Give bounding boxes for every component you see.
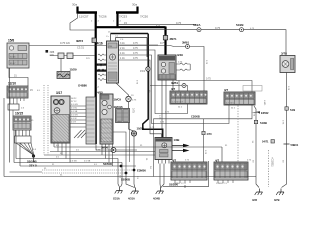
svg-text:G31A: G31A xyxy=(113,197,120,201)
svg-text:54/2B: 54/2B xyxy=(236,23,243,27)
svg-text:G4B86: G4B86 xyxy=(78,84,87,88)
svg-text:11/C57: 11/C57 xyxy=(79,15,89,19)
svg-text:0.5 GN: 0.5 GN xyxy=(71,104,78,106)
svg-text:3 1b: 3 1b xyxy=(120,42,125,45)
svg-text:0.75 GN: 0.75 GN xyxy=(60,41,70,45)
svg-text:54/9: 54/9 xyxy=(290,108,296,112)
svg-text:0.75: 0.75 xyxy=(132,108,135,113)
svg-text:30a: 30a xyxy=(132,3,137,7)
svg-text:23Y 5: 23Y 5 xyxy=(29,164,37,168)
svg-text:54/2A: 54/2A xyxy=(193,23,200,27)
svg-text:1 2 3 4 5: 1 2 3 4 5 xyxy=(226,102,235,104)
svg-text:7/C53: 7/C53 xyxy=(119,15,127,19)
svg-text:0.75: 0.75 xyxy=(176,21,182,25)
svg-text:C3/50B: C3/50B xyxy=(191,115,200,119)
svg-text:3/17: 3/17 xyxy=(56,91,62,95)
svg-text:10/15: 10/15 xyxy=(15,112,23,116)
svg-text:85 87: 85 87 xyxy=(10,63,16,65)
svg-text:E3502: E3502 xyxy=(261,111,269,115)
svg-text:0.75: 0.75 xyxy=(160,41,166,45)
svg-text:3M71: 3M71 xyxy=(170,37,177,41)
svg-text:7/C50: 7/C50 xyxy=(140,15,148,19)
svg-text:30 86: 30 86 xyxy=(10,57,16,59)
svg-text:0.75: 0.75 xyxy=(215,26,221,30)
svg-text:3/7: 3/7 xyxy=(224,88,229,92)
svg-text:3/7B: 3/7B xyxy=(274,198,280,202)
svg-text:54/2B: 54/2B xyxy=(260,121,267,125)
svg-text:L MD: L MD xyxy=(263,100,265,106)
svg-text:3M91: 3M91 xyxy=(182,41,189,45)
svg-text:3M51: 3M51 xyxy=(171,81,178,85)
svg-text:0.5 SB: 0.5 SB xyxy=(84,161,91,163)
svg-text:0.5 SB: 0.5 SB xyxy=(70,161,77,163)
svg-text:2 1b: 2 1b xyxy=(120,47,125,50)
svg-text:3/7: 3/7 xyxy=(171,87,176,91)
svg-text:15/8: 15/8 xyxy=(8,39,14,43)
svg-text:0.75: 0.75 xyxy=(133,57,138,60)
svg-text:53B01: 53B01 xyxy=(291,143,299,147)
svg-text:53/50D: 53/50D xyxy=(103,162,112,166)
svg-text:0.5 W: 0.5 W xyxy=(71,118,76,120)
svg-text:3/49: 3/49 xyxy=(177,53,183,57)
svg-text:4 1b: 4 1b xyxy=(120,52,125,55)
svg-text:30a: 30a xyxy=(72,3,77,7)
svg-text:54/2C: 54/2C xyxy=(71,98,77,100)
svg-text:10/2B: 10/2B xyxy=(137,127,144,131)
svg-text:0.5 BL: 0.5 BL xyxy=(71,108,78,110)
svg-text:53/D00: 53/D00 xyxy=(169,183,178,187)
svg-text:15/29: 15/29 xyxy=(70,68,77,72)
svg-text:7/C56: 7/C56 xyxy=(99,15,107,19)
svg-text:C3.31: C3.31 xyxy=(77,46,84,50)
svg-text:19/C9: 19/C9 xyxy=(114,98,122,102)
svg-text:0.75: 0.75 xyxy=(133,47,138,50)
svg-text:0.75: 0.75 xyxy=(133,52,138,55)
svg-text:4/70: 4/70 xyxy=(207,132,213,136)
svg-text:3M73: 3M73 xyxy=(76,39,83,43)
svg-text:+C32011: +C32011 xyxy=(271,157,274,167)
svg-text:56.9A: 56.9A xyxy=(156,139,162,142)
svg-text:4/16: 4/16 xyxy=(97,42,103,46)
svg-text:0.75: 0.75 xyxy=(206,78,211,81)
svg-text:53/50B: 53/50B xyxy=(121,177,130,181)
svg-text:E3M56: E3M56 xyxy=(137,169,146,173)
svg-text:4/34B: 4/34B xyxy=(153,197,160,201)
svg-text:0.75: 0.75 xyxy=(133,42,138,45)
svg-text:2Y 12: 2Y 12 xyxy=(71,101,77,103)
svg-text:15/1: 15/1 xyxy=(140,69,146,73)
svg-text:0.5 SB: 0.5 SB xyxy=(71,111,78,113)
svg-text:PW RLY: PW RLY xyxy=(160,58,169,61)
svg-text:4/31A: 4/31A xyxy=(128,197,135,201)
svg-text:1/3B: 1/3B xyxy=(174,138,180,142)
svg-text:1 1b: 1 1b xyxy=(120,57,125,60)
svg-text:4/35: 4/35 xyxy=(252,198,258,202)
svg-text:0.5 GR: 0.5 GR xyxy=(71,115,78,117)
svg-text:3/78: 3/78 xyxy=(281,52,287,56)
svg-text:1 2 3 4 5 6 7: 1 2 3 4 5 6 7 xyxy=(172,101,184,103)
svg-text:0.5 R: 0.5 R xyxy=(71,122,76,124)
svg-text:13/4B1 2 3: 13/4B1 2 3 xyxy=(216,183,227,185)
svg-text:54/71: 54/71 xyxy=(262,140,269,144)
